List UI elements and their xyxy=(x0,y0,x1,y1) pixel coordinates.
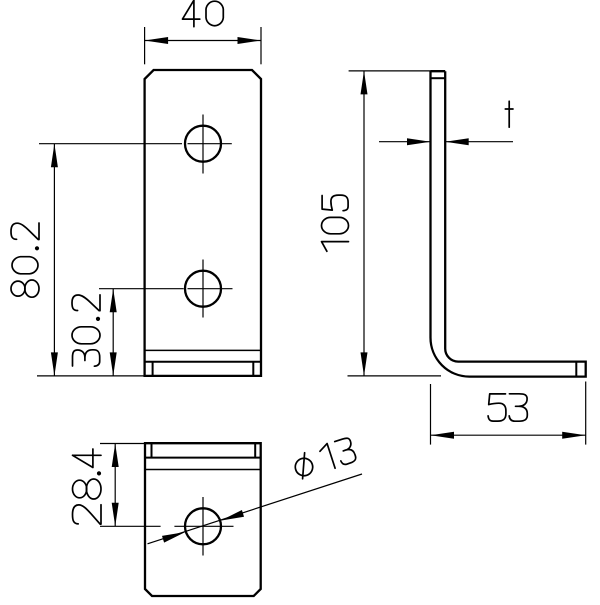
dim 40 left extension line xyxy=(144,27,146,64)
dim 28.4 top arrowhead xyxy=(112,444,119,468)
phi13 lower-left arrowhead (points at hole) xyxy=(162,532,185,543)
dim 105 top arrowhead xyxy=(361,71,368,95)
dim 40 label text xyxy=(183,0,200,27)
dim 28.4 label text (rotated) xyxy=(73,449,102,524)
dim 105 bottom arrowhead xyxy=(361,352,368,376)
front view outline (flat face of bracket) xyxy=(145,70,261,376)
bottom view flange seam line xyxy=(145,457,261,459)
dim 53 label text xyxy=(488,394,506,421)
thickness dim right line xyxy=(445,141,513,143)
dim 105 label text (rotated) xyxy=(322,195,349,251)
dim 80.2 dimension line xyxy=(53,144,55,376)
side view L-profile outline xyxy=(430,71,585,376)
thickness dim left arrowhead (points right) xyxy=(407,138,431,145)
phi13 label text (rotated along leader) xyxy=(291,436,357,480)
side view top edge seam line xyxy=(431,77,446,79)
dim 53 left arrowhead xyxy=(431,432,455,439)
dim 53 right arrowhead xyxy=(562,432,586,439)
hole 1 vertical centerline xyxy=(202,115,204,174)
phi13 upper-right arrowhead (points at hole) xyxy=(221,510,244,521)
hole 2 circle xyxy=(185,271,221,307)
front view bend tangent line xyxy=(145,349,261,351)
thickness dim right arrowhead (points left) xyxy=(445,138,469,145)
dim 105 dimension line xyxy=(363,71,365,376)
bottom shared extension line for 80.2/30.2 xyxy=(37,375,145,377)
hole 2 horizontal centerline / extension for 30.2 xyxy=(99,288,184,290)
dim 30.2 dimension line xyxy=(112,289,114,376)
dim 80.2 bottom arrowhead xyxy=(51,352,58,376)
thickness dim left line xyxy=(379,141,431,143)
dim 28.4 dimension line xyxy=(114,444,116,527)
dim 53 dimension line xyxy=(431,434,586,436)
front view flange left vertical xyxy=(152,362,154,376)
dim 28.4 bottom arrowhead xyxy=(112,503,119,527)
bottom view flange right vertical xyxy=(254,443,256,457)
dim 53 left extension line xyxy=(430,384,432,445)
dim 28.4 top extension line xyxy=(100,443,145,445)
dim 30.2 label text (rotated) xyxy=(72,295,100,366)
hole 1 circle xyxy=(185,126,221,162)
dim 40 right extension line xyxy=(260,27,262,64)
dim 40 left arrowhead xyxy=(145,37,169,44)
front view flange right vertical xyxy=(252,362,254,376)
hole 2 vertical centerline xyxy=(202,260,204,318)
bottom view flange left vertical xyxy=(151,443,153,457)
bottom view bend tangent line xyxy=(145,469,261,471)
side view end seam line xyxy=(575,362,577,377)
hole 3 vertical centerline xyxy=(202,497,204,556)
dim 80.2 label text (rotated) xyxy=(11,223,39,297)
dim 40 right arrowhead xyxy=(238,37,262,44)
hole 3 circle (bottom view) xyxy=(185,508,221,544)
thickness label t xyxy=(505,101,513,127)
dim 30.2 top arrowhead xyxy=(110,289,117,313)
dim 105 bottom extension line xyxy=(348,375,442,377)
phi13 leader line xyxy=(148,474,363,544)
dim 105 top extension line xyxy=(349,70,431,72)
bottom view outline xyxy=(145,443,261,596)
dim 30.2 bottom arrowhead xyxy=(110,352,117,376)
hole 3 horizontal centerline / extension for 28.4 xyxy=(100,525,161,527)
hole 1 horizontal centerline / extension for 80.2 xyxy=(39,143,182,145)
dim 80.2 top arrowhead xyxy=(51,144,58,168)
dim 40 dimension line xyxy=(145,40,261,42)
front view flange seam line xyxy=(145,361,261,363)
dim 53 right extension line xyxy=(585,382,587,445)
